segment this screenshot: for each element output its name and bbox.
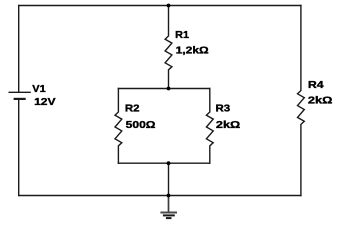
svg-text:V1: V1	[32, 84, 46, 95]
svg-text:2kΩ: 2kΩ	[308, 95, 333, 106]
svg-text:R4: R4	[308, 80, 324, 91]
svg-text:1,2kΩ: 1,2kΩ	[176, 46, 209, 57]
svg-text:R1: R1	[175, 30, 189, 41]
svg-text:12V: 12V	[34, 97, 56, 108]
svg-text:2kΩ: 2kΩ	[216, 120, 240, 131]
svg-text:500Ω: 500Ω	[126, 120, 156, 131]
svg-text:R3: R3	[216, 103, 231, 114]
svg-text:R2: R2	[125, 103, 140, 114]
